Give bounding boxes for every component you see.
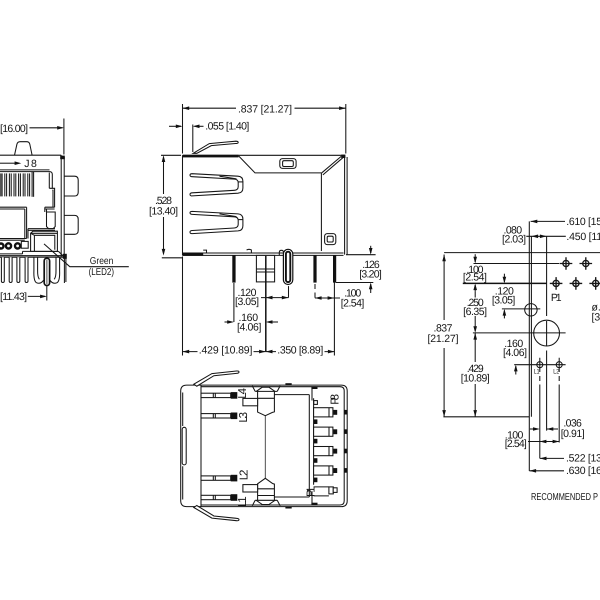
- svg-text:[3.20]: [3.20]: [359, 269, 382, 281]
- svg-text:[6.35]: [6.35]: [463, 306, 487, 318]
- svg-text:.429 [10.89]: .429 [10.89]: [199, 345, 253, 357]
- svg-text:[16.00]: [16.00]: [0, 123, 28, 135]
- svg-text:L1: L1: [237, 496, 249, 507]
- svg-text:[3.05]: [3.05]: [492, 295, 516, 307]
- svg-text:L3: L3: [238, 412, 250, 423]
- svg-text:.350 [8.89]: .350 [8.89]: [277, 345, 323, 357]
- svg-text:[10.89]: [10.89]: [461, 373, 490, 385]
- svg-text:.610 [15.4: .610 [15.4: [566, 216, 600, 228]
- svg-text:L2: L2: [238, 470, 250, 481]
- svg-text:L1: L1: [534, 368, 540, 375]
- svg-text:[3.05]: [3.05]: [235, 296, 259, 308]
- svg-text:[0.91]: [0.91]: [561, 428, 585, 440]
- svg-text:(LED2): (LED2): [89, 267, 114, 278]
- svg-text:.630 [16.0: .630 [16.0: [566, 465, 600, 477]
- svg-text:[4.06]: [4.06]: [237, 322, 262, 334]
- svg-text:L2: L2: [553, 368, 559, 375]
- svg-text:[2.03]: [2.03]: [502, 234, 526, 246]
- svg-text:L4: L4: [237, 387, 249, 398]
- svg-text:.450 [11.4: .450 [11.4: [566, 231, 600, 243]
- svg-text:.522 [13.2: .522 [13.2: [566, 453, 600, 465]
- svg-text:[2.54]: [2.54]: [341, 297, 365, 309]
- svg-text:Green: Green: [90, 256, 114, 267]
- svg-text:[2.54]: [2.54]: [505, 438, 527, 450]
- svg-text:[11.43]: [11.43]: [0, 291, 27, 303]
- svg-text:[3.: [3.: [592, 312, 600, 324]
- svg-text:[2.54]: [2.54]: [463, 271, 487, 283]
- svg-text:P1: P1: [306, 486, 318, 497]
- svg-text:.837 [21.27]: .837 [21.27]: [238, 103, 292, 115]
- svg-text:J8: J8: [24, 158, 37, 170]
- svg-text:[13.40]: [13.40]: [149, 206, 178, 218]
- svg-text:.055 [1.40]: .055 [1.40]: [205, 120, 249, 132]
- svg-text:[21.27]: [21.27]: [428, 333, 459, 345]
- svg-text:P8: P8: [329, 394, 341, 405]
- svg-text:P1: P1: [551, 292, 562, 304]
- svg-text:RECOMMENDED P: RECOMMENDED P: [531, 492, 598, 503]
- svg-text:[4.06]: [4.06]: [503, 347, 527, 359]
